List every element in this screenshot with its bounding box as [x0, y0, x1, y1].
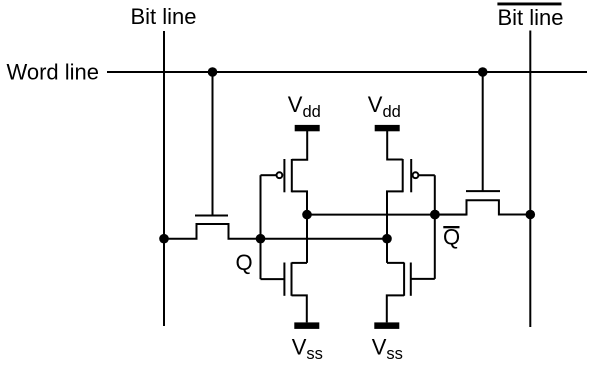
- wire: N2 gate to input: [411, 278, 435, 280]
- transistor N2 (right NMOS) drain wire: [387, 262, 404, 264]
- wire: N1 gate to input: [261, 278, 285, 280]
- wire: bit line (left): [163, 31, 165, 326]
- transistor N1 gate plate: [283, 263, 285, 296]
- transistor P1 gate bubble: [277, 172, 283, 178]
- transistor M1 channel and source/drain wires: [164, 224, 261, 239]
- power Vdd bar (right): [375, 125, 400, 131]
- node: word line / left access gate junction: [208, 67, 218, 77]
- node Q junction dot: [256, 234, 266, 244]
- wire: QB net horizontal: [307, 214, 467, 216]
- wire: N2 source to Vss: [387, 295, 404, 322]
- wire: right Vdd stub: [387, 131, 403, 160]
- transistor P2 (right PMOS) channel: [402, 159, 404, 192]
- transistor M1 (left access NMOS) gate wire: [212, 72, 214, 216]
- node: word line / right access gate junction: [478, 67, 488, 77]
- svg-text:Vdd: Vdd: [288, 92, 321, 121]
- transistor M2 (right access NMOS) gate wire: [482, 72, 484, 191]
- wire: N1 source to Vss: [292, 295, 307, 322]
- transistor M2 channel and source/drain wires: [435, 200, 530, 214]
- transistor N2 channel: [403, 263, 405, 296]
- power Vss bar (right): [374, 322, 399, 329]
- transistor M2 gate plate: [466, 190, 500, 192]
- wire: right inverter input vertical: [434, 175, 436, 279]
- svg-text:Word line: Word line: [7, 59, 100, 84]
- transistor N1 channel: [291, 263, 293, 296]
- transistor P2 gate plate: [410, 159, 412, 192]
- node: right bit line / M2 junction: [526, 210, 536, 220]
- svg-text:Vss: Vss: [292, 335, 323, 364]
- transistor P2 gate bubble: [413, 172, 419, 178]
- node: left inverter output on QB: [302, 210, 312, 220]
- transistor M1 gate plate: [195, 215, 228, 217]
- svg-text:Vdd: Vdd: [368, 92, 401, 121]
- overline of QB label: [443, 226, 459, 228]
- transistor N1 (left NMOS) drain wire: [292, 262, 308, 264]
- transistor P1 drain wire: [292, 191, 307, 263]
- node: bit line / M1 junction: [159, 234, 169, 244]
- svg-text:Bit line: Bit line: [498, 5, 564, 30]
- svg-text:Bit line: Bit line: [131, 4, 197, 29]
- node: QB / M2 junction: [430, 210, 440, 220]
- wire: word line: [107, 71, 587, 73]
- wire: left Vdd stub: [292, 131, 307, 160]
- wire: left inverter input vertical: [260, 175, 262, 279]
- node: right inverter output on Q: [382, 234, 392, 244]
- transistor P1 (left PMOS) channel: [291, 159, 293, 192]
- transistor N2 gate plate: [410, 263, 412, 296]
- svg-text:Q: Q: [236, 250, 253, 275]
- wire: Q net horizontal: [261, 238, 388, 240]
- svg-text:Vss: Vss: [372, 335, 403, 364]
- wire: P1 gate to input: [261, 174, 277, 176]
- transistor P2 drain wire: [387, 191, 403, 263]
- overline of right Bit line label: [497, 3, 561, 6]
- node: right inverter input on QB: [430, 210, 440, 220]
- wire: P2 gate to input: [418, 174, 434, 176]
- power Vdd bar (left): [295, 125, 320, 131]
- power Vss bar (left): [294, 322, 319, 329]
- wire: complemented bit line (right): [529, 31, 531, 328]
- transistor P1 gate plate: [283, 159, 285, 192]
